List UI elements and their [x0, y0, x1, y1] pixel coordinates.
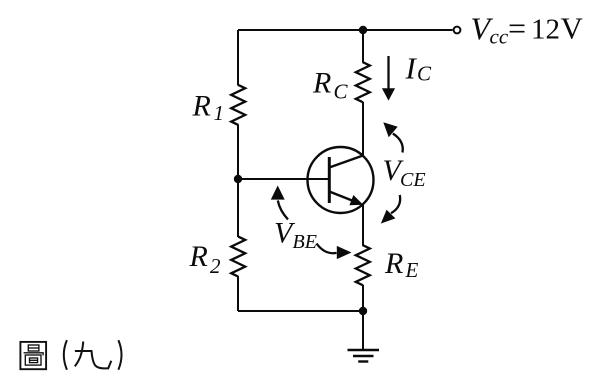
svg-text:I: I [405, 51, 418, 86]
resistor RC [356, 62, 370, 102]
terminal Vcc open circle [454, 27, 461, 34]
ground symbol [348, 350, 380, 362]
resistor R1 [231, 85, 245, 125]
svg-text:1: 1 [214, 101, 225, 125]
wire bottom rail [238, 310, 363, 312]
label R2 [189, 240, 222, 278]
caption character "nine" (九) [75, 342, 112, 369]
arrow VBE lower (curved, head right toward RE) [317, 244, 352, 260]
caption right parenthesis [118, 340, 121, 370]
wire collector lead (RC to transistor) [362, 102, 364, 156]
svg-text:V: V [561, 11, 584, 46]
label IC [405, 51, 433, 86]
wire ground stem [362, 311, 364, 350]
arrow VCE upper (curved, head up-left) [383, 122, 402, 152]
wire left branch middle (R1 to base node) [237, 125, 239, 180]
svg-text:cc: cc [490, 25, 509, 49]
label RC [312, 67, 349, 104]
wire emitter lead (transistor to RE) [362, 205, 364, 246]
svg-text:2: 2 [210, 254, 221, 278]
transistor Q1 NPN BJT [308, 147, 374, 213]
wire RE bottom lead [362, 285, 364, 311]
node emitter-ground junction [359, 307, 367, 315]
svg-text:E: E [405, 258, 419, 282]
label VCE [383, 154, 426, 191]
svg-text:R: R [312, 67, 331, 100]
label VBE [274, 217, 317, 254]
wire left branch lower (node to R2) [237, 179, 239, 237]
label R1 [192, 90, 225, 125]
wire top rail Vcc [238, 29, 453, 31]
label Vcc = 12 V [471, 10, 584, 49]
svg-text:C: C [417, 61, 432, 85]
svg-text:R: R [189, 240, 208, 273]
svg-text:R: R [384, 247, 403, 280]
arrow VCE lower (curved, head down-left) [381, 195, 400, 224]
arrow VBE upper (curved, head up) [271, 186, 288, 220]
wire left branch upper (top rail to R1) [237, 30, 239, 86]
caption figure character "tu" (圖) [20, 342, 46, 369]
svg-text:R: R [192, 90, 211, 123]
svg-text:12: 12 [531, 13, 560, 45]
wire base (node to transistor base) [238, 178, 329, 180]
svg-text:=: = [508, 10, 526, 46]
svg-text:CE: CE [400, 169, 426, 191]
node base divider junction [234, 175, 242, 183]
label RE [384, 247, 419, 282]
svg-text:BE: BE [293, 231, 317, 253]
svg-text:C: C [334, 80, 349, 104]
current arrow IC [382, 56, 395, 101]
caption left parenthesis [64, 340, 67, 370]
wire left branch bottom (R2 to bottom rail) [237, 276, 239, 311]
node junction top (RC branch tap) [359, 26, 367, 34]
resistor RE [356, 245, 370, 285]
resistor R2 [231, 237, 245, 277]
wire RC top lead [362, 30, 364, 63]
